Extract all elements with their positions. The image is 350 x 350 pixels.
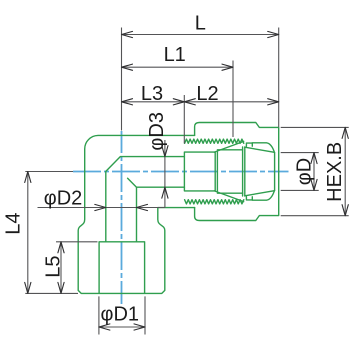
- extension line x=184.3 (L3/L2): [183, 95, 185, 144]
- leg bore left + drill diagonal + port bore top: [106, 157, 185, 242]
- dimension line L3/L2: [122, 101, 279, 103]
- extension lines phiD1: [99, 296, 145, 334]
- dimension line phiD1: [99, 326, 145, 328]
- ferrule cone top: [245, 147, 275, 152]
- extension line x=278.7 (L, L2): [278, 28, 280, 128]
- extension line left (top dims, over leg centerline): [121, 28, 123, 131]
- dimension phiD2: [38, 207, 165, 209]
- dimension phiD3 vertical: [164, 140, 166, 208]
- svg-text:φD: φD: [294, 158, 316, 185]
- svg-text:L5: L5: [43, 255, 65, 277]
- svg-text:L4: L4: [2, 212, 24, 234]
- sleeve top line: [217, 150, 242, 193]
- centerline extension left gray: [25, 171, 73, 173]
- ferrule notch top: [246, 143, 252, 146]
- dimension line HEX.B: [344, 127, 346, 215]
- svg-text:HEX.B: HEX.B: [324, 142, 346, 202]
- sleeve cone diagonals: [214, 141, 243, 201]
- dimension line L1: [122, 66, 234, 68]
- nut end bore face: [274, 152, 276, 190]
- extension bottom edge left: [25, 292, 78, 294]
- ferrule outer line bottom: [252, 191, 274, 201]
- svg-text:φD3: φD3: [146, 112, 168, 151]
- port bore bottom line: [137, 186, 185, 188]
- ferrule faces: [243, 147, 245, 196]
- svg-text:φD2: φD2: [44, 188, 83, 210]
- svg-text:L3: L3: [141, 83, 163, 105]
- thread crest top: [185, 139, 244, 143]
- dimension line L5: [60, 242, 62, 294]
- ferrule cone bottom: [245, 191, 275, 196]
- thread crest bottom: [185, 200, 244, 204]
- extension lines HEX.B: [281, 127, 349, 215]
- dimension line phiD: [313, 153, 315, 191]
- ferrule outer line top: [252, 143, 274, 153]
- extension socket top (L5): [56, 241, 98, 243]
- svg-text:L2: L2: [196, 83, 218, 105]
- svg-text:L1: L1: [164, 44, 186, 66]
- dimension line L: [122, 34, 279, 36]
- centerline horizontal (port axis): [73, 171, 289, 173]
- tube socket: [99, 242, 145, 294]
- ferrule notch bottom: [246, 197, 252, 200]
- elbow body outline: [78, 135, 194, 293]
- extension line x=233 (L1): [232, 61, 234, 138]
- leg bore right + inner drill diagonal: [128, 178, 137, 242]
- svg-text:L: L: [195, 13, 206, 35]
- svg-text:φD1: φD1: [101, 304, 140, 326]
- centerline vertical (leg axis): [121, 131, 123, 304]
- sleeve back faces: [215, 152, 217, 191]
- nut outline: [195, 123, 279, 221]
- dimension line L4: [27, 172, 29, 294]
- extension lines phiD: [281, 153, 319, 191]
- counterbore rectangle: [184, 152, 214, 191]
